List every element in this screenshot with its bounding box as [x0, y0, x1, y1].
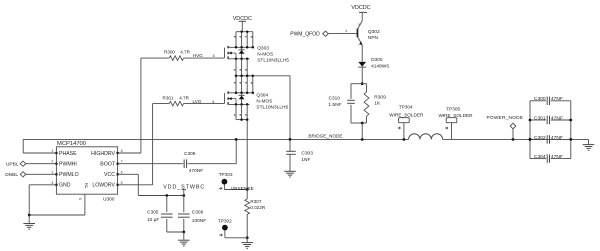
svg-text:N-MOS: N-MOS	[257, 51, 273, 57]
svg-text:1K: 1K	[374, 100, 381, 106]
svg-text:WIRE_SOLDER: WIRE_SOLDER	[389, 113, 424, 118]
svg-text:UPBL: UPBL	[6, 162, 19, 168]
svg-text:C310: C310	[329, 95, 341, 101]
svg-text:BOOT: BOOT	[100, 162, 116, 168]
svg-text:47NF: 47NF	[551, 135, 563, 141]
svg-text:TP304: TP304	[399, 104, 413, 109]
svg-text:4.7R: 4.7R	[179, 96, 189, 101]
svg-text:BRIDGE_NODE: BRIDGE_NODE	[308, 134, 342, 139]
svg-text:R307: R307	[250, 199, 261, 204]
svg-text:C301: C301	[534, 115, 546, 121]
svg-text:LVG: LVG	[193, 99, 202, 104]
svg-text:1.5NF: 1.5NF	[328, 102, 341, 108]
svg-text:4.7R: 4.7R	[180, 50, 190, 55]
svg-text:47NF: 47NF	[551, 96, 563, 102]
svg-text:GND: GND	[59, 183, 71, 189]
svg-text:5: 5	[121, 181, 123, 185]
svg-text:LOWDRV: LOWDRV	[92, 183, 115, 189]
svg-text:1: 1	[345, 29, 347, 33]
svg-text:4: 4	[51, 181, 53, 185]
svg-text:C305: C305	[147, 209, 159, 215]
svg-text:WIRE_SOLDER: WIRE_SOLDER	[438, 113, 473, 118]
svg-text:4148WS: 4148WS	[371, 63, 389, 69]
svg-text:C304: C304	[534, 154, 546, 160]
svg-text:TP303: TP303	[219, 172, 233, 177]
svg-text:PWMHI: PWMHI	[59, 162, 77, 168]
svg-text:Q303: Q303	[257, 45, 269, 51]
svg-text:R300: R300	[164, 50, 175, 55]
svg-text:3: 3	[51, 170, 53, 174]
svg-text:TP302: TP302	[218, 218, 232, 223]
svg-text:VCC: VCC	[104, 172, 115, 178]
svg-text:6: 6	[121, 170, 123, 174]
svg-text:TP305: TP305	[446, 106, 460, 111]
svg-text:POWER_NODE: POWER_NODE	[487, 115, 524, 121]
svg-text:C302: C302	[534, 135, 546, 141]
svg-text:100NF: 100NF	[192, 218, 206, 224]
svg-text:N-MOS: N-MOS	[256, 99, 272, 105]
svg-text:C309: C309	[184, 151, 196, 157]
svg-text:PWMLO: PWMLO	[59, 172, 79, 178]
svg-text:47NF: 47NF	[551, 115, 563, 121]
svg-text:PHASE: PHASE	[59, 151, 77, 157]
svg-text:HIGHDRV: HIGHDRV	[91, 151, 115, 157]
svg-text:NPN: NPN	[368, 35, 379, 41]
svg-text:VRSENSE: VRSENSE	[231, 186, 254, 192]
svg-text:1NF: 1NF	[301, 157, 310, 163]
svg-text:PWM_QFOD: PWM_QFOD	[290, 31, 320, 37]
svg-text:1: 1	[51, 149, 53, 153]
svg-text:TH: TH	[84, 183, 89, 189]
svg-text:U300: U300	[103, 196, 115, 202]
svg-text:7: 7	[121, 160, 123, 164]
svg-text:470NF: 470NF	[189, 168, 203, 174]
svg-text:C303: C303	[301, 150, 313, 156]
svg-text:DNBL: DNBL	[5, 172, 18, 178]
svg-text:10 µF: 10 µF	[147, 217, 159, 223]
svg-text:R309: R309	[374, 95, 386, 101]
svg-text:0.022R: 0.022R	[250, 205, 265, 210]
svg-text:8: 8	[121, 149, 123, 153]
svg-text:STL10N3LLH5: STL10N3LLH5	[256, 105, 288, 111]
svg-text:47NF: 47NF	[551, 154, 563, 160]
svg-text:HVG: HVG	[193, 53, 203, 58]
svg-text:Q302: Q302	[368, 29, 380, 35]
svg-text:C306: C306	[192, 209, 204, 215]
svg-text:9: 9	[78, 198, 82, 200]
svg-text:R301: R301	[163, 96, 174, 101]
svg-text:Q304: Q304	[256, 93, 268, 99]
svg-text:VDCDC: VDCDC	[351, 5, 370, 11]
svg-text:STL10N3LLH5: STL10N3LLH5	[257, 57, 289, 63]
svg-text:2: 2	[51, 160, 53, 164]
svg-text:MCP14700: MCP14700	[57, 141, 86, 147]
svg-text:C300: C300	[534, 96, 546, 102]
svg-text:D300: D300	[371, 57, 383, 63]
